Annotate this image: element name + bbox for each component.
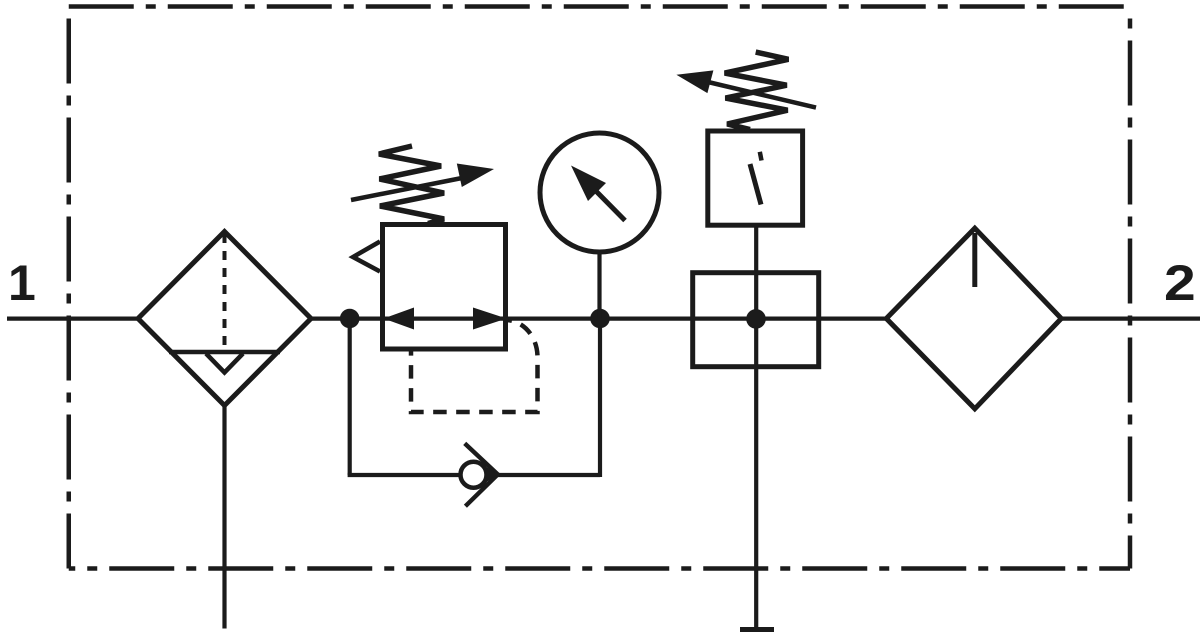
pilot valve U1 head box [708,131,803,225]
wire: bypass up to gauge junction [598,319,602,478]
wire: filter drain line [222,406,226,629]
regulator R1 body [383,225,506,350]
regulator R1 relief chevron [353,242,380,272]
shut-off valve body on main line [693,273,819,367]
lubricator L1 drip stub [972,233,977,287]
regulator R1 flow arrow right [473,308,507,330]
pilot valve U1 adjustment arrow shaft [708,82,816,108]
wire: main line lubricator to port 2 [1060,317,1200,321]
regulator R1 pilot line (dashed) [411,320,538,412]
wire: bypass bottom right segment [496,473,600,477]
wire: main line filter to lubricator [309,317,888,321]
lubricator L1 body (diamond) [886,228,1061,409]
regulator R1 adjustment arrow shaft [351,178,462,200]
enclosure border left (dash-dot) [67,7,72,569]
filter F1 separator chord [169,350,280,355]
wire: bypass bottom left segment [348,473,462,477]
check valve V1 seat arms [465,443,498,506]
regulator R1 flow arrow left [384,308,415,330]
filter F1 body (diamond) [138,232,311,406]
pilot valve U1 spring [725,52,789,129]
filter F1 dashed centerline [223,234,227,351]
check valve V1 seat wedge [487,467,498,482]
node: junction dot in shut-off valve [746,309,766,329]
check valve V1 ball [461,462,487,488]
exhaust end bar [740,627,774,632]
svg-text:2: 2 [1164,255,1196,311]
pressure gauge G1 dial [540,133,659,252]
regulator R1 adjustment spring [379,146,444,224]
enclosure border bottom (dash-dot) [69,566,1130,571]
pilot valve U1 lever tick [760,152,762,161]
wire: pilot valve vertical stem [754,225,758,630]
pressure gauge G1 needle [590,185,625,221]
node: junction dot under gauge [590,309,610,329]
wire: bypass down from junction [348,319,352,476]
enclosure border top (dash-dot) [69,4,1130,9]
wire: main line port1 to filter [7,317,140,321]
pilot valve U1 adjustment arrowhead [676,70,713,93]
wire: gauge stem [597,245,601,319]
node: junction dot before regulator [340,309,360,329]
filter F1 condensate V [206,354,243,373]
regulator R1 adjustment arrowhead [457,164,494,188]
enclosure border right (dash-dot) [1128,7,1133,569]
pilot valve U1 lever [750,164,761,205]
pressure gauge G1 needle arrowhead [571,166,606,202]
svg-text:1: 1 [8,255,36,311]
